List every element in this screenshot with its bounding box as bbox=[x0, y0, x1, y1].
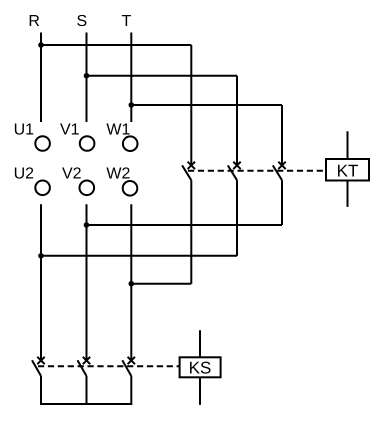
terminal V2 circle bbox=[80, 181, 95, 196]
junction dot T tap bbox=[129, 102, 135, 108]
wire KT pole1 upper vertical bbox=[190, 45, 192, 165]
wire KT pole3 lower vertical bbox=[281, 180, 283, 225]
contact KT pole1 blade bbox=[182, 165, 191, 180]
wire W2 lower vertical bbox=[130, 204, 132, 360]
linkage KT dashed bbox=[188, 170, 326, 172]
svg-text:U2: U2 bbox=[14, 166, 35, 183]
wire R tap horizontal bbox=[41, 44, 191, 46]
contact KS pole2 blade bbox=[78, 360, 87, 376]
wire KS pole1 bottom bbox=[40, 376, 42, 404]
junction dot W2 tap bbox=[129, 281, 135, 287]
wire KT pole2 upper vertical bbox=[236, 76, 238, 166]
junction dot U2 tap bbox=[38, 253, 44, 259]
wire KT pole1 lower vertical bbox=[190, 180, 192, 284]
coil KT box bbox=[326, 159, 369, 181]
contact KT pole3 cross bbox=[278, 162, 285, 169]
contact KT pole2 blade bbox=[228, 165, 237, 180]
wire U2 to KT pole2 horizontal bbox=[41, 255, 237, 257]
linkage KS dashed bbox=[38, 365, 180, 367]
contact KT pole3 blade bbox=[273, 165, 282, 180]
contact KS pole3 cross bbox=[128, 357, 135, 364]
svg-text:W2: W2 bbox=[106, 166, 130, 183]
junction dot S tap bbox=[84, 73, 90, 79]
junction dot R tap bbox=[38, 42, 44, 48]
terminal W2 circle bbox=[123, 181, 138, 196]
coil KT stub above bbox=[347, 131, 349, 159]
terminal V1 circle bbox=[80, 136, 95, 151]
coil KS stub above bbox=[199, 330, 201, 357]
wire V2 to KT pole3 horizontal bbox=[87, 224, 283, 226]
wire V2 lower vertical bbox=[86, 204, 88, 360]
svg-text:U1: U1 bbox=[14, 122, 35, 139]
wire KT pole3 upper vertical bbox=[281, 105, 283, 165]
junction dot V2 tap bbox=[84, 222, 90, 228]
coil KS box bbox=[180, 357, 221, 377]
svg-text:T: T bbox=[122, 13, 132, 30]
contact KS pole1 cross bbox=[37, 357, 44, 364]
svg-text:V1: V1 bbox=[60, 122, 80, 139]
wire phase R vertical bbox=[40, 33, 42, 123]
wire W2 to KT pole1 horizontal bbox=[131, 283, 191, 285]
wire S tap horizontal bbox=[87, 75, 238, 77]
coil KT stub below bbox=[347, 181, 349, 207]
svg-text:S: S bbox=[77, 13, 88, 30]
terminal W1 circle bbox=[123, 136, 138, 151]
contact KS pole1 blade bbox=[32, 360, 41, 376]
coil KS stub below bbox=[199, 377, 201, 405]
wire KS pole2 bottom bbox=[86, 376, 88, 404]
svg-text:R: R bbox=[28, 13, 40, 30]
contact KS pole2 cross bbox=[83, 357, 90, 364]
svg-text:KS: KS bbox=[189, 359, 212, 378]
svg-text:V2: V2 bbox=[62, 166, 82, 183]
wire KS pole3 bottom bbox=[130, 376, 132, 404]
contact KS pole3 blade bbox=[122, 360, 131, 376]
svg-text:KT: KT bbox=[337, 161, 359, 180]
wire phase T vertical bbox=[130, 33, 132, 123]
terminal U1 circle bbox=[35, 136, 50, 151]
contact KT pole2 cross bbox=[233, 162, 240, 169]
wire star-point bus bbox=[40, 403, 132, 405]
wire phase S vertical bbox=[86, 33, 88, 123]
wire KT pole2 lower vertical bbox=[236, 180, 238, 256]
terminal U2 circle bbox=[35, 181, 50, 196]
wire T tap horizontal bbox=[131, 104, 282, 106]
contact KT pole1 cross bbox=[188, 162, 195, 169]
wire U2 lower vertical bbox=[40, 204, 42, 360]
